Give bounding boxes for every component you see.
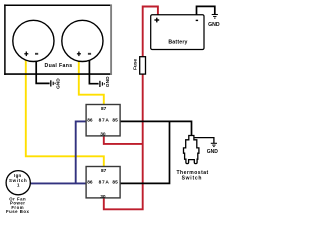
svg-text:GND: GND — [207, 149, 219, 155]
wire black fan1 negative to ground — [36, 55, 49, 84]
svg-text:30: 30 — [100, 194, 106, 200]
wire red fuse down to relay K2 pin 30 — [104, 74, 143, 210]
dual fans enclosure box — [4, 4, 112, 75]
wire yellow fan2 to relay K1 pin 87 — [79, 55, 104, 106]
ground fan1 GND — [51, 78, 62, 89]
wire red battery positive to fuse — [143, 7, 158, 58]
relay K2 — [86, 167, 120, 200]
fan M2 circle — [62, 20, 103, 61]
battery — [151, 15, 204, 50]
svg-text:GND: GND — [56, 78, 62, 89]
thermostat switch symbol — [184, 136, 199, 164]
wire blue branch up to relay K1 pin 86 — [76, 121, 87, 183]
wire blue ignition switch to relay K2 pin 86 — [29, 182, 86, 184]
wire black battery negative to ground — [197, 6, 215, 15]
ignition switch circle — [6, 171, 30, 195]
wire yellow fan1 to relay K2 pin 87 — [26, 55, 104, 168]
ground battery GND — [208, 15, 220, 28]
fan M1 polarity labels — [24, 52, 38, 57]
wire black relay K1 pin 85 to thermostat — [120, 121, 192, 136]
svg-text:85: 85 — [112, 118, 118, 124]
svg-text:87: 87 — [101, 106, 107, 112]
svg-text:86: 86 — [87, 118, 93, 124]
svg-text:30: 30 — [100, 132, 106, 138]
wire black fan2 negative to ground — [89, 55, 98, 84]
svg-text:Battery: Battery — [168, 39, 187, 45]
svg-text:Dual Fans: Dual Fans — [45, 63, 73, 69]
fan M1 circle — [13, 20, 54, 61]
svg-text:Fuse: Fuse — [133, 58, 139, 70]
ground thermostat GND — [207, 143, 219, 155]
svg-text:85: 85 — [112, 180, 118, 186]
wire black junction down to relay K2 pin 85 — [120, 121, 170, 183]
svg-text:Fuse Box: Fuse Box — [6, 209, 29, 214]
svg-text:GND: GND — [208, 22, 220, 28]
label Thermostat Switch — [176, 170, 208, 182]
svg-text:87A: 87A — [99, 180, 110, 186]
svg-text:87A: 87A — [99, 118, 110, 124]
svg-text:Switch: Switch — [182, 176, 203, 182]
svg-text:86: 86 — [87, 180, 93, 186]
fuse F1 — [133, 57, 146, 74]
label Dual Fans — [45, 63, 73, 69]
wire black thermostat to ground — [194, 138, 214, 143]
label Or Fan Power From Fuse Box — [6, 196, 29, 214]
fan M2 polarity labels — [77, 52, 91, 57]
wire red branch to relay K1 pin 30 — [104, 135, 143, 144]
ground fan2 GND — [100, 76, 111, 87]
relay K1 — [86, 105, 120, 138]
svg-text:GND: GND — [105, 76, 111, 87]
svg-text:87: 87 — [101, 168, 107, 174]
